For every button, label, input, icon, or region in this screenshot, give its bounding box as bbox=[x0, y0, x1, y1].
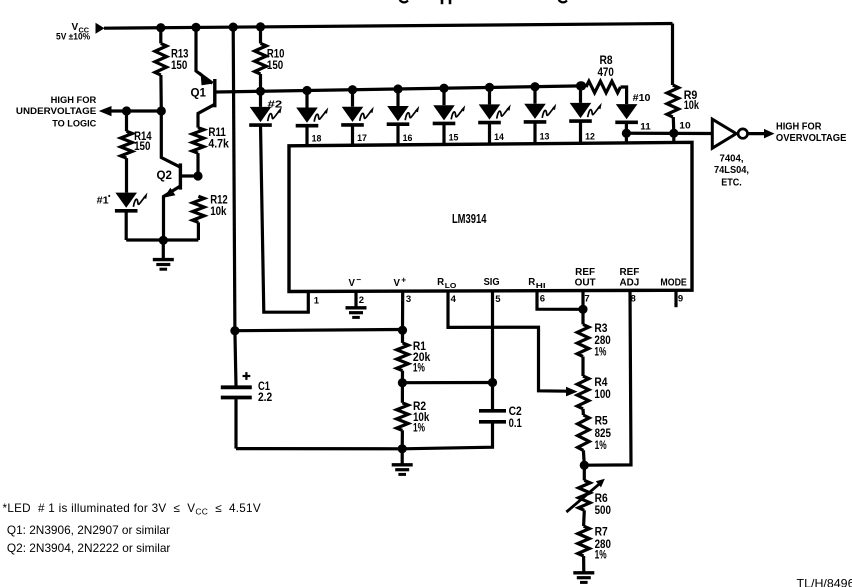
svg-text:LM3914: LM3914 bbox=[452, 212, 487, 226]
node junction dot SIG/C2 top bbox=[488, 378, 497, 387]
wire R2 top lead bbox=[401, 383, 404, 403]
wire R6-R7 lead bbox=[582, 510, 586, 526]
svg-text:TL/H/8496: TL/H/8496 bbox=[797, 577, 852, 587]
svg-text:SIG: SIG bbox=[484, 277, 500, 288]
resistor R10 bbox=[255, 43, 267, 74]
svg-text:12: 12 bbox=[585, 131, 595, 142]
label #1* bbox=[97, 194, 111, 207]
svg-text:16: 16 bbox=[403, 133, 413, 144]
svg-text:V: V bbox=[394, 278, 401, 289]
label R12 value bbox=[210, 194, 228, 218]
wire R12 bottom lead bbox=[197, 222, 200, 240]
svg-text:ETC.: ETC. bbox=[721, 178, 742, 189]
node junction dot at R13 top bbox=[156, 23, 165, 32]
wire R8 right lead to LED10 bbox=[621, 87, 627, 104]
label Q1 bbox=[191, 87, 207, 99]
node junction dot V+ column / C1 bbox=[230, 326, 239, 335]
svg-text:R13: R13 bbox=[171, 49, 189, 61]
op-amp/IC U2 LM3914 box bbox=[289, 142, 692, 291]
resistor R7 bbox=[578, 526, 590, 556]
svg-text:R: R bbox=[437, 277, 444, 288]
label R14 value bbox=[134, 131, 152, 153]
pin number 2 bbox=[359, 295, 364, 306]
ground at pin 2 bbox=[346, 308, 367, 318]
wire R1 bottom lead bbox=[401, 371, 404, 383]
wire R5 bottom lead bbox=[582, 450, 586, 465]
node junction dot R13/Q2 collector bbox=[157, 106, 166, 115]
wire C1 top lead bbox=[235, 331, 236, 386]
svg-text:2: 2 bbox=[359, 295, 364, 306]
svg-text:*LED # 1 is illuminated for 3: *LED # 1 is illuminated for 3V ≤ VCC ≤ 4… bbox=[3, 502, 261, 517]
R6 arrow bbox=[566, 479, 604, 512]
svg-text:UNDERVOLTAGE: UNDERVOLTAGE bbox=[16, 106, 96, 116]
pin 8 wire to R5/R6 junction bbox=[584, 290, 631, 465]
wire ground stem R2 bbox=[401, 449, 404, 465]
svg-text:Q2: 2N3904, 2N2222 or similar: Q2: 2N3904, 2N2222 or similar bbox=[7, 542, 171, 555]
wire V+ column from top rail bbox=[233, 27, 235, 331]
LED #16 with cathode to pin 16 bbox=[387, 84, 420, 144]
pin number 10 bbox=[679, 121, 690, 132]
svg-text:REF: REF bbox=[620, 267, 640, 278]
svg-text:R8: R8 bbox=[600, 55, 614, 67]
svg-text:100: 100 bbox=[594, 389, 610, 401]
wire LED2 anode lead bbox=[259, 91, 262, 107]
svg-text:V: V bbox=[349, 278, 356, 289]
svg-text:MODE: MODE bbox=[660, 278, 687, 289]
footnote Q1 types bbox=[7, 524, 170, 537]
label HIGH FOR UNDERVOLTAGE TO LOGIC bbox=[16, 95, 97, 128]
wire left section bottom rail bbox=[126, 238, 198, 241]
wire VCC top rail bbox=[104, 24, 673, 29]
svg-text:7: 7 bbox=[584, 293, 589, 304]
svg-text:+: + bbox=[401, 274, 406, 284]
svg-text:R: R bbox=[528, 277, 535, 288]
wire R14 top lead bbox=[125, 111, 128, 131]
svg-text:R10: R10 bbox=[267, 49, 285, 61]
svg-text:10k: 10k bbox=[684, 100, 700, 112]
LED #13 with cathode to pin 13 bbox=[524, 82, 557, 144]
pin number 8 bbox=[631, 293, 636, 304]
pin 4 wire to R4 wiper bbox=[448, 291, 567, 391]
resistor R1 bbox=[397, 343, 409, 371]
wire R9 bottom lead bbox=[672, 117, 676, 133]
cropped title text fragment 'pp' descenders bbox=[442, 0, 450, 4]
svg-text:Q1: Q1 bbox=[191, 87, 207, 99]
svg-text:7404,: 7404, bbox=[720, 154, 744, 165]
capacitor C1 bbox=[221, 387, 252, 397]
svg-text:REF: REF bbox=[575, 267, 595, 278]
pin 7 stub bbox=[581, 291, 584, 310]
svg-text:TO LOGIC: TO LOGIC bbox=[52, 118, 96, 128]
svg-text:R5: R5 bbox=[595, 416, 609, 428]
wire ground stem left bbox=[162, 240, 165, 259]
ground below R2 bbox=[392, 465, 413, 475]
label REF OUT pin7 bbox=[575, 267, 596, 289]
pin number 18 bbox=[312, 134, 322, 145]
label LM3914 bbox=[452, 212, 487, 226]
pin number 5 bbox=[495, 294, 501, 305]
svg-text:14: 14 bbox=[494, 132, 504, 143]
label V+ pin3 bbox=[394, 274, 407, 289]
wire R13 top lead bbox=[159, 28, 162, 44]
node junction dot pin3/R1 top bbox=[398, 326, 407, 335]
LED #18 with cathode to pin 18 bbox=[296, 86, 329, 146]
svg-text:18: 18 bbox=[312, 134, 322, 145]
label C1 value bbox=[258, 381, 272, 404]
wire R10 top lead bbox=[259, 27, 262, 44]
label RHI pin6 bbox=[528, 277, 545, 290]
ground left section bbox=[153, 260, 174, 270]
svg-text:R11: R11 bbox=[208, 127, 226, 139]
label R8 value bbox=[598, 55, 614, 79]
svg-text:5: 5 bbox=[495, 294, 501, 305]
svg-text:15: 15 bbox=[449, 133, 459, 144]
LED #2 bbox=[249, 107, 282, 125]
pin 5 stub to C2 bbox=[491, 291, 494, 410]
svg-text:5V ±10%: 5V ±10% bbox=[56, 32, 90, 42]
pin 2 stub to ground bbox=[354, 291, 357, 308]
svg-text:6: 6 bbox=[540, 293, 545, 304]
svg-text:150: 150 bbox=[267, 60, 283, 72]
wire R13 bottom lead to undervoltage node bbox=[159, 75, 163, 111]
svg-text:10: 10 bbox=[679, 121, 690, 132]
label R13 value bbox=[171, 49, 189, 73]
wire LED2 cathode to pin1 bbox=[261, 125, 309, 312]
pin number 16 bbox=[403, 133, 413, 144]
node junction dot R2 bottom bbox=[398, 444, 407, 453]
cropped title text fragment 'g' descender bbox=[559, 0, 568, 2]
wire undervoltage node bbox=[110, 109, 161, 112]
wire R14 to LED1 bbox=[125, 158, 128, 193]
svg-text:HI: HI bbox=[536, 281, 546, 290]
label TL/H/8496 bbox=[797, 577, 852, 587]
svg-text:1%: 1% bbox=[413, 423, 425, 435]
svg-text:ADJ: ADJ bbox=[620, 278, 640, 289]
wire V+ node to pin3 bbox=[235, 330, 403, 331]
svg-text:R3: R3 bbox=[594, 323, 607, 335]
svg-text:Q2: Q2 bbox=[157, 170, 173, 182]
node junction dot Q2 emitter/ground bbox=[159, 236, 168, 245]
wire bottom rail C1 to R2 ground bbox=[236, 447, 402, 450]
pin number 9 bbox=[678, 293, 683, 304]
label C2 value bbox=[509, 406, 523, 430]
wire R6 top lead bbox=[583, 465, 586, 480]
svg-text:280: 280 bbox=[594, 335, 610, 347]
LED #15 with cathode to pin 15 bbox=[433, 84, 466, 145]
pin 6 wire to REF OUT bbox=[537, 291, 583, 310]
LED #14 with cathode to pin 14 bbox=[478, 83, 511, 144]
resistor R11 bbox=[192, 128, 204, 154]
node junction dot R14 top bbox=[122, 106, 131, 115]
transistor Q2 emitter arrow bbox=[164, 188, 176, 198]
label REF ADJ pin8 bbox=[620, 267, 640, 289]
wire R3 top lead bbox=[581, 309, 584, 324]
pin number 1 bbox=[314, 295, 320, 306]
svg-text:150: 150 bbox=[171, 60, 187, 72]
wire R1R2 node to C2 top bbox=[402, 381, 492, 384]
pin number 3 bbox=[406, 294, 411, 305]
pin number 4 bbox=[451, 294, 457, 305]
R4 wiper arrow bbox=[566, 387, 578, 397]
label HIGH FOR OVERVOLTAGE bbox=[776, 122, 847, 145]
resistor R2 bbox=[397, 403, 409, 431]
potentiometer R4 bbox=[577, 376, 589, 409]
transistor Q1 base bar bbox=[213, 79, 216, 107]
wire pin11/10 net to inverter bbox=[626, 132, 712, 136]
wire pin 10 stub bbox=[672, 133, 675, 142]
svg-text:9: 9 bbox=[678, 293, 683, 304]
ground below R7 bbox=[573, 573, 594, 583]
label R7 value bbox=[595, 527, 611, 562]
label R6 value bbox=[595, 493, 611, 517]
resistor R8 bbox=[586, 81, 621, 93]
node junction dot pin 10 bbox=[669, 129, 678, 138]
label 7404 74LS04 ETC bbox=[714, 154, 749, 189]
svg-text:R4: R4 bbox=[594, 377, 608, 389]
wire ground stem R7 bbox=[582, 556, 585, 573]
capacitor C1 plus sign bbox=[243, 372, 251, 380]
wire top rail right drop to R9 bbox=[671, 24, 674, 86]
wire R3-R4 lead bbox=[581, 357, 584, 377]
pin number 7 bbox=[584, 293, 589, 304]
resistor R5 bbox=[578, 415, 590, 450]
pin number 14 bbox=[494, 132, 504, 143]
label R5 value bbox=[595, 416, 612, 453]
svg-text:R6: R6 bbox=[595, 493, 608, 505]
svg-text:#2: #2 bbox=[268, 99, 283, 110]
svg-text:#10: #10 bbox=[633, 93, 651, 104]
label R9 value bbox=[684, 90, 700, 112]
wire LED1 cathode to bottom rail bbox=[125, 211, 128, 240]
svg-text:2.2: 2.2 bbox=[258, 392, 272, 404]
svg-text:13: 13 bbox=[540, 132, 550, 143]
resistor R14 bbox=[121, 131, 133, 158]
svg-text:1%: 1% bbox=[595, 550, 607, 562]
node junction dot pin7/pin6 bbox=[578, 305, 587, 314]
label R2 value bbox=[413, 401, 430, 435]
svg-text:150: 150 bbox=[134, 141, 150, 153]
wire R10 bottom lead to LED rail bbox=[259, 74, 262, 91]
pin number 11 bbox=[640, 122, 651, 133]
pin number 6 bbox=[540, 293, 545, 304]
label V- pin2 bbox=[349, 274, 362, 289]
pin 3 stub bbox=[401, 291, 404, 331]
label RLO pin4 bbox=[437, 277, 457, 290]
label R1 value bbox=[413, 341, 431, 375]
resistor R13 bbox=[155, 43, 167, 75]
svg-text:C2: C2 bbox=[509, 406, 522, 418]
node junction dot LED2 anode bbox=[256, 87, 265, 96]
wire LED10 cathode to pin 11 bbox=[625, 122, 628, 133]
svg-text:10k: 10k bbox=[210, 206, 227, 218]
node junction dot R1/R2 bbox=[398, 378, 407, 387]
LED #17 with cathode to pin 17 bbox=[341, 85, 374, 145]
svg-text:R7: R7 bbox=[595, 527, 608, 539]
node junction Q2 base / R11 / R12 bbox=[193, 171, 202, 180]
svg-text:1%: 1% bbox=[594, 347, 606, 359]
transistor Q1 emitter arrow bbox=[201, 72, 213, 85]
node junction dot R5/R6/pin8 bbox=[580, 461, 589, 470]
svg-text:OUT: OUT bbox=[575, 278, 596, 289]
undervoltage output arrow bbox=[99, 106, 112, 116]
node junction dot at R10 top bbox=[256, 22, 265, 31]
node junction dot at Q1 emitter bbox=[191, 23, 200, 32]
svg-text:0.1: 0.1 bbox=[509, 418, 523, 430]
svg-text:470: 470 bbox=[598, 67, 614, 79]
svg-text:HIGH FOR: HIGH FOR bbox=[776, 122, 821, 133]
svg-text:Q1: 2N3906, 2N2907 or similar: Q1: 2N3906, 2N2907 or similar bbox=[7, 524, 170, 537]
resistor R9 bbox=[667, 85, 679, 117]
label Q2 bbox=[157, 170, 173, 182]
svg-text:1%: 1% bbox=[413, 363, 425, 375]
svg-text:825: 825 bbox=[595, 428, 612, 440]
label #2 bbox=[268, 99, 283, 110]
pin number 13 bbox=[540, 132, 550, 143]
transistor Q2 base wire bbox=[182, 174, 198, 177]
svg-text:HIGH FOR: HIGH FOR bbox=[51, 95, 97, 105]
label R4 value bbox=[594, 377, 610, 401]
wire C2 bottom lead to bottom rail bbox=[402, 422, 492, 449]
transistor Q2 collector bbox=[161, 111, 180, 167]
label SIG pin5 bbox=[484, 277, 500, 288]
svg-text:3: 3 bbox=[406, 294, 411, 305]
VCC input arrow bbox=[96, 23, 105, 34]
overvoltage output arrow bbox=[764, 129, 775, 139]
pin 9 stub bbox=[674, 290, 677, 307]
wire R4-R5 lead bbox=[581, 409, 585, 415]
wire R2 bottom lead bbox=[401, 430, 404, 448]
wire R11 bottom lead bbox=[196, 153, 199, 176]
node junction dot at V+ column top bbox=[229, 23, 238, 32]
label R3 value bbox=[594, 323, 610, 358]
capacitor C2 bbox=[479, 411, 506, 422]
cropped title text fragment 'g' descender bbox=[400, 0, 409, 2]
node junction dot pin 11 bbox=[622, 129, 631, 138]
LED #1 bbox=[115, 193, 147, 211]
pin number 12 bbox=[585, 131, 595, 142]
pin number 15 bbox=[449, 133, 459, 144]
svg-text:4: 4 bbox=[451, 294, 457, 305]
footnote LED #1 condition bbox=[3, 502, 261, 517]
label #10 bbox=[633, 93, 651, 104]
svg-text:500: 500 bbox=[595, 505, 611, 517]
inverter U1 output bubble bbox=[738, 129, 747, 138]
resistor R3 bbox=[577, 324, 589, 356]
node VCC label bbox=[56, 22, 90, 42]
svg-text:−: − bbox=[356, 274, 361, 284]
transistor Q1 collector bbox=[198, 104, 215, 127]
wire Q1 emitter lead bbox=[196, 27, 213, 83]
svg-text:4.7k: 4.7k bbox=[208, 139, 229, 151]
wire pin 11 stub bbox=[625, 133, 628, 143]
transistor Q2 base bar bbox=[179, 163, 182, 189]
wire R1 top lead bbox=[401, 330, 404, 343]
LED #12 with cathode to pin 12 bbox=[569, 81, 602, 143]
node junction dot LED12/R8 bbox=[577, 81, 586, 90]
svg-text:1%: 1% bbox=[595, 440, 607, 452]
svg-text:LO: LO bbox=[445, 281, 457, 290]
svg-text:•: • bbox=[108, 194, 111, 201]
inverter U1 triangle bbox=[712, 119, 736, 148]
svg-text:OVERVOLTAGE: OVERVOLTAGE bbox=[776, 133, 847, 144]
variable resistor R6 bbox=[579, 480, 591, 510]
wire C1 bottom lead bbox=[234, 399, 237, 448]
svg-text:1: 1 bbox=[314, 295, 320, 306]
wire LED anode rail bbox=[216, 86, 582, 92]
resistor R12 bbox=[193, 196, 205, 222]
svg-text:R12: R12 bbox=[210, 194, 228, 206]
label MODE pin9 bbox=[660, 278, 687, 289]
transistor Q2 emitter bbox=[164, 186, 181, 240]
footnote Q2 types bbox=[7, 542, 171, 555]
pin number 17 bbox=[357, 133, 367, 144]
svg-text:11: 11 bbox=[640, 122, 651, 133]
svg-text:74LS04,: 74LS04, bbox=[714, 165, 749, 176]
label R10 value bbox=[267, 49, 285, 73]
label R11 value bbox=[208, 127, 229, 151]
svg-text:8: 8 bbox=[631, 293, 636, 304]
LED #10 bbox=[615, 104, 638, 122]
wire inverter output bbox=[748, 132, 766, 135]
svg-text:17: 17 bbox=[357, 133, 367, 144]
